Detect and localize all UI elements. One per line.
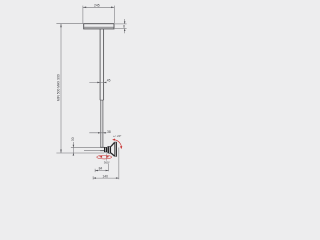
svg-text:8: 8: [123, 24, 125, 28]
block B: [107, 146, 108, 153]
inner tube diameter dim: [89, 132, 106, 134]
outer tube diameter dim: [89, 81, 106, 83]
arm between pole and head: [100, 147, 104, 150]
long height dimension MIN/MAX: [56, 24, 104, 153]
block A: [104, 147, 107, 152]
svg-text:360°: 360°: [104, 160, 110, 164]
pivot extension: [106, 153, 108, 160]
svg-text:30: 30: [71, 137, 75, 141]
svg-text:+/- 20°: +/- 20°: [113, 134, 121, 138]
red tilt arc: [113, 140, 121, 148]
dimension 245 (plate width): [83, 6, 114, 24]
ceiling plate: [84, 24, 114, 29]
outer tube: [100, 29, 104, 100]
dimension 140: [93, 148, 119, 180]
svg-text:MIN 500 MAX 900: MIN 500 MAX 900: [57, 74, 61, 101]
svg-text:84: 84: [99, 167, 103, 171]
dimension 8 (plate thickness): [115, 19, 127, 33]
svg-text:45: 45: [107, 79, 111, 83]
face plate: [114, 142, 117, 157]
inner tube: [101, 100, 103, 147]
svg-text:245: 245: [94, 4, 100, 8]
dimension 84: [95, 164, 108, 173]
small 30 dimension (arm offset): [71, 142, 100, 155]
svg-text:38: 38: [107, 130, 111, 134]
cone: [111, 143, 114, 147]
red swivel ellipse: [97, 155, 112, 159]
svg-text:140: 140: [102, 175, 108, 179]
head assembly: [100, 142, 117, 161]
